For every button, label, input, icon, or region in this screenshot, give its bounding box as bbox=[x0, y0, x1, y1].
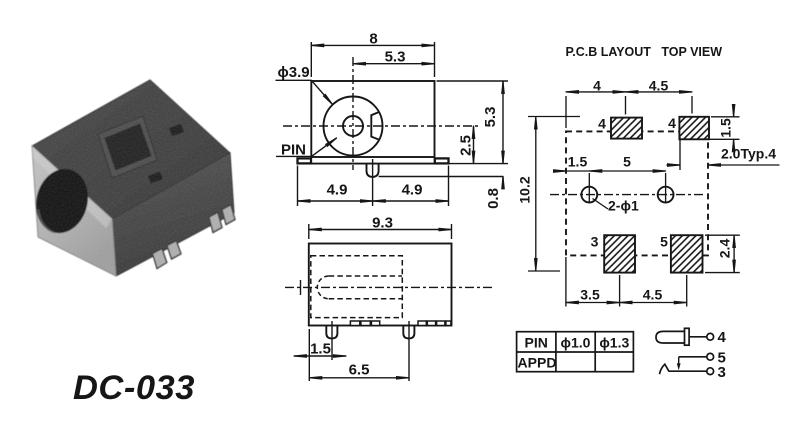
svg-text:1.5: 1.5 bbox=[568, 154, 588, 170]
ext rect left lower bbox=[308, 329, 310, 381]
svg-text:P.C.B LAYOUT TOP VIEW: P.C.B LAYOUT TOP VIEW bbox=[566, 45, 723, 59]
leg D bbox=[222, 205, 235, 225]
pin circle bbox=[343, 116, 363, 136]
leg 2 bbox=[403, 326, 414, 339]
svg-text:DC-033: DC-033 bbox=[73, 369, 195, 407]
bump bottom ext bbox=[379, 176, 503, 178]
phi3.9 leader bbox=[276, 80, 333, 104]
ext top dims bbox=[565, 96, 567, 128]
svg-text:5: 5 bbox=[660, 234, 668, 250]
ext left 10.2 bbox=[528, 116, 580, 118]
dim 4.5 top bbox=[626, 91, 693, 93]
ext leg2 center bbox=[408, 321, 410, 381]
dim 5.3 right bbox=[502, 81, 504, 164]
svg-text:5: 5 bbox=[623, 154, 631, 170]
dim 4.5 bottom bbox=[620, 302, 687, 304]
left flange bbox=[298, 158, 312, 163]
pin3 spring contact bbox=[660, 364, 707, 374]
hole ext right bbox=[665, 173, 667, 203]
hole right bbox=[658, 187, 674, 203]
top face bbox=[32, 80, 230, 219]
body outline bbox=[309, 244, 452, 326]
ext bottom dims bbox=[565, 257, 567, 307]
svg-text:4: 4 bbox=[593, 78, 601, 94]
top recess outer rim bbox=[98, 116, 157, 178]
dim 6.5 bbox=[309, 377, 409, 379]
dim 5.3 top bbox=[353, 63, 435, 65]
dim 4.9 right bbox=[373, 200, 449, 202]
dashed slot bottom bbox=[329, 298, 402, 300]
pad 5 bbox=[671, 235, 703, 272]
centerline through holes bbox=[550, 194, 706, 196]
svg-text:0.8: 0.8 bbox=[485, 188, 502, 209]
right base ext bbox=[449, 163, 509, 165]
pin4 flange bbox=[685, 328, 690, 345]
body outline bbox=[311, 81, 434, 157]
svg-text:ϕ3.9: ϕ3.9 bbox=[278, 64, 310, 81]
dim 2.0Typ.4 bbox=[679, 137, 681, 170]
pin5 to pin3 arrow bbox=[678, 357, 680, 365]
pad 4 right bbox=[679, 117, 709, 140]
serrated contact strip left bbox=[350, 321, 379, 326]
dim 1.5 arrows bbox=[294, 355, 309, 357]
ext right 2.4 bbox=[705, 234, 740, 236]
pin5 lead bbox=[679, 356, 707, 358]
pin5 terminal circle bbox=[707, 353, 714, 360]
dashed slot top bbox=[329, 275, 402, 277]
right ext top bbox=[437, 80, 509, 82]
svg-text:3: 3 bbox=[591, 234, 599, 250]
dim 3.5 bbox=[566, 302, 620, 304]
svg-text:4.9: 4.9 bbox=[327, 182, 348, 199]
leg C bbox=[209, 212, 222, 232]
svg-text:1.5: 1.5 bbox=[718, 118, 734, 138]
front face top edge highlight bbox=[32, 146, 112, 228]
svg-text:ϕ1.0: ϕ1.0 bbox=[561, 335, 591, 351]
centerline horizontal bbox=[285, 286, 495, 288]
serrated contact strip right bbox=[418, 321, 451, 326]
hole ext left bbox=[588, 173, 590, 203]
svg-text:4: 4 bbox=[668, 115, 676, 131]
centerline horizontal bbox=[283, 125, 478, 127]
svg-text:8: 8 bbox=[369, 31, 377, 48]
pad 4 left bbox=[611, 118, 642, 139]
small slot top right bbox=[169, 124, 184, 136]
svg-text:4: 4 bbox=[718, 329, 727, 346]
leg B bbox=[167, 241, 181, 259]
dim 4.9 left bbox=[298, 200, 373, 202]
dim 8 bbox=[311, 44, 434, 46]
svg-text:5.3: 5.3 bbox=[385, 49, 406, 66]
dim 1.5 right arrows bbox=[733, 104, 735, 117]
dim 9.3 bbox=[309, 229, 452, 231]
svg-text:2.0Typ.4: 2.0Typ.4 bbox=[721, 146, 776, 162]
leg 1 bbox=[326, 326, 337, 339]
pin4 plug body bbox=[656, 331, 685, 343]
ext lines 9.3 bbox=[308, 224, 310, 239]
svg-text:2.5: 2.5 bbox=[458, 135, 475, 156]
base line bbox=[298, 163, 449, 165]
dim 5 bbox=[589, 170, 665, 172]
bottom ext lines bbox=[297, 166, 299, 207]
pin4 terminal circle bbox=[707, 333, 714, 340]
dim 1.5 arrow left bbox=[555, 170, 566, 172]
small slot below recess bbox=[148, 172, 163, 184]
dim 10.2 bbox=[535, 117, 537, 272]
ext leg1 center bbox=[331, 321, 333, 360]
dim 2.5 bbox=[473, 126, 475, 164]
leader 2-phi1 bbox=[593, 199, 609, 210]
svg-text:3.5: 3.5 bbox=[580, 287, 600, 303]
right flange bbox=[435, 158, 449, 163]
pin3 terminal circle bbox=[707, 368, 714, 375]
svg-text:5.3: 5.3 bbox=[482, 107, 499, 128]
svg-text:4: 4 bbox=[598, 116, 606, 132]
top recess inner bbox=[105, 124, 152, 171]
svg-text:6.5: 6.5 bbox=[349, 362, 370, 379]
centerline vertical bbox=[352, 57, 354, 170]
svg-text:9.3: 9.3 bbox=[372, 215, 393, 232]
svg-text:4.5: 4.5 bbox=[649, 78, 669, 94]
svg-text:2.4: 2.4 bbox=[717, 239, 733, 259]
jack hole bbox=[29, 163, 94, 238]
svg-text:1.5: 1.5 bbox=[310, 341, 331, 358]
barrel circle bbox=[324, 97, 383, 156]
svg-text:3: 3 bbox=[718, 364, 726, 381]
front face bbox=[32, 146, 116, 276]
svg-text:10.2: 10.2 bbox=[517, 176, 533, 203]
PIN leader bbox=[276, 138, 337, 156]
centerline tick bbox=[300, 280, 302, 295]
dashed courtyard outline bbox=[566, 131, 708, 255]
leg A bbox=[153, 249, 167, 269]
dim 2.4 bbox=[733, 235, 735, 272]
svg-text:ϕ1.3: ϕ1.3 bbox=[599, 335, 629, 351]
hole left bbox=[581, 187, 597, 203]
pad 3 bbox=[604, 235, 635, 272]
grain texture over photo bbox=[20, 70, 245, 285]
right face bbox=[112, 153, 234, 276]
svg-text:2-ϕ1: 2-ϕ1 bbox=[608, 198, 639, 214]
dim 0.8 arrow bbox=[502, 176, 504, 189]
pin4 lead bbox=[689, 336, 707, 338]
svg-text:4.9: 4.9 bbox=[402, 182, 423, 199]
dim 4 bbox=[566, 91, 626, 93]
svg-text:4.5: 4.5 bbox=[643, 287, 663, 303]
dashed housing outline bbox=[311, 256, 403, 318]
svg-text:APPD: APPD bbox=[518, 355, 557, 371]
ext lines top bbox=[310, 42, 312, 77]
center bump pin bbox=[367, 164, 379, 177]
contact notch bbox=[371, 112, 378, 139]
svg-text:PIN: PIN bbox=[525, 335, 548, 351]
ext right 1.5 bbox=[711, 116, 740, 118]
svg-text:PIN: PIN bbox=[281, 142, 306, 159]
dashed slot round end bbox=[317, 276, 328, 299]
